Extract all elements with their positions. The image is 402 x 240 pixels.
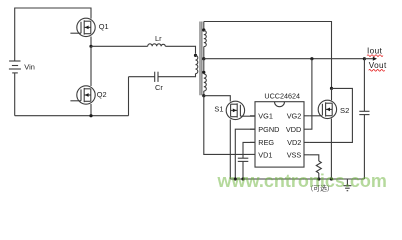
pin label REG [258, 138, 274, 147]
pin stubs U1 left [250, 116, 255, 155]
node: secondary bottom junction [202, 94, 205, 97]
svg-text:Vout: Vout [369, 61, 387, 70]
resistor R-VSS [316, 161, 321, 173]
svg-text:Cr: Cr [155, 83, 163, 92]
wire: Iout arrow [364, 57, 377, 61]
op-amp U1 UCC24624 body [255, 102, 304, 167]
transformer T1 primary phase dot [194, 54, 197, 57]
pin label VDD [286, 125, 301, 134]
svg-text:www.cntronics.com: www.cntronics.com [217, 171, 387, 191]
wire: secondary ground rail [230, 178, 364, 180]
wire: output cap bottom branch [363, 115, 365, 179]
wire: resistor to ground rail [318, 173, 320, 179]
inductor Lr [148, 44, 166, 47]
wire: secondary top lead [203, 22, 205, 31]
pin label VG1 [258, 111, 273, 120]
wire: Vin- down to bottom rail [14, 73, 16, 115]
wire: VG2 to S2 gate [309, 115, 322, 117]
pin label VD2 [287, 138, 301, 147]
label (optional) [307, 183, 334, 192]
wire: VD1 branch [204, 96, 250, 155]
node: output cap junction on Vout rail [363, 57, 366, 60]
label S1 [214, 104, 223, 113]
svg-text:Iout: Iout [367, 47, 383, 56]
svg-text:VG1: VG1 [258, 111, 273, 120]
wire: Cr branch riser [128, 77, 130, 116]
transformer T1 secondary top winding [204, 31, 207, 47]
label Cr [155, 83, 163, 92]
transformer T1 core [200, 22, 202, 96]
wire: secondary link to centre tap [203, 47, 205, 59]
transistor S1 [226, 101, 244, 119]
wire: REG branch [243, 142, 255, 158]
pin label VSS [287, 150, 302, 159]
wire: output cap top branch [363, 59, 365, 112]
svg-text:PGND: PGND [258, 125, 279, 134]
wire: S2 drain stub [331, 88, 333, 100]
wire: top rail from Vin+ to Q1 drain [15, 8, 91, 61]
pin label PGND [258, 125, 279, 134]
svg-text:UCC24624: UCC24624 [264, 91, 300, 100]
svg-text:S2: S2 [340, 106, 349, 115]
transformer T1 secondary bottom winding [204, 74, 207, 91]
capacitor Cout [359, 111, 369, 114]
node: PGND rail junction [234, 177, 237, 180]
ground [343, 179, 351, 191]
label UCC24624 [264, 91, 300, 100]
label Iout [367, 47, 383, 57]
svg-text:VDD: VDD [286, 125, 301, 134]
node: S2 drain junction [330, 87, 333, 90]
wire: winding end to bottom junction [203, 91, 205, 96]
node: R-VSS rail junction [317, 177, 320, 180]
label Lr [155, 34, 162, 43]
node: centre tap junction [202, 57, 205, 60]
node: S2 source rail junction [330, 177, 333, 180]
wire: PGND to ground rail [235, 129, 255, 179]
wire: Cr right plate to primary bottom [158, 74, 196, 77]
svg-text:REG: REG [258, 138, 274, 147]
capacitor C-REG [238, 158, 249, 161]
wire: secondary top to S2 drain drop [204, 22, 332, 89]
node: REG cap rail junction [241, 177, 244, 180]
label S2 [340, 106, 349, 115]
wire: Lr to transformer primary top [165, 46, 195, 53]
node: VDD junction on Vout rail [310, 57, 313, 60]
label Vout [369, 61, 387, 71]
wire: VSS branch [309, 155, 319, 161]
watermark www.cntronics.com [217, 171, 387, 191]
svg-text:VD2: VD2 [287, 138, 301, 147]
label Q2 [97, 90, 107, 99]
wire: Vout rail from centre tap [204, 58, 365, 60]
wire: Q2 source to bottom rail [90, 104, 92, 116]
capacitor Cr [155, 72, 158, 82]
svg-text:S1: S1 [214, 104, 223, 113]
label Vin [24, 63, 35, 72]
wire: centre tap to lower winding [203, 59, 205, 73]
svg-text:Q1: Q1 [99, 22, 109, 31]
wire: S1 source down to ground rail [229, 120, 231, 180]
transistor Q1 [70, 18, 95, 36]
node: Q2 source / bottom rail junction [89, 114, 92, 117]
wire: secondary bottom to S1 drain [204, 96, 231, 102]
pin label VG2 [287, 111, 302, 120]
wire: S2 drain over to VD2 [309, 88, 352, 142]
pin stubs U1 right [304, 116, 309, 155]
node: half-bridge midpoint junction [89, 45, 92, 48]
wire: VG1 to S1 gate [240, 115, 255, 117]
svg-text:VSS: VSS [287, 150, 302, 159]
pin label VD1 [258, 150, 272, 159]
label Q1 [99, 22, 109, 31]
transformer T1 primary winding [196, 56, 198, 74]
transformer T1 secondary bottom phase dot [202, 71, 205, 74]
svg-text:VG2: VG2 [287, 111, 302, 120]
wire: VDD riser to Vout rail [309, 59, 312, 130]
svg-text:VD1: VD1 [258, 150, 272, 159]
transformer T1 secondary top phase dot [202, 28, 205, 31]
wire: Q1 source to midpoint node [90, 37, 92, 47]
svg-text:Vin: Vin [24, 63, 35, 72]
wire: midpoint down to Q2 drain [90, 46, 92, 86]
wire: bottom rail of primary side [15, 115, 129, 117]
svg-text:Lr: Lr [155, 34, 162, 43]
svg-text:Q2: Q2 [97, 90, 107, 99]
transistor S2 [318, 100, 336, 118]
battery Vin [9, 61, 21, 73]
wire: riser to Cr left plate [129, 76, 155, 78]
transistor Q2 [70, 86, 95, 104]
wire: C-REG to ground rail [242, 161, 244, 179]
wire: midpoint to Lr [91, 45, 148, 47]
wire: S2 source down to ground rail [330, 119, 332, 180]
